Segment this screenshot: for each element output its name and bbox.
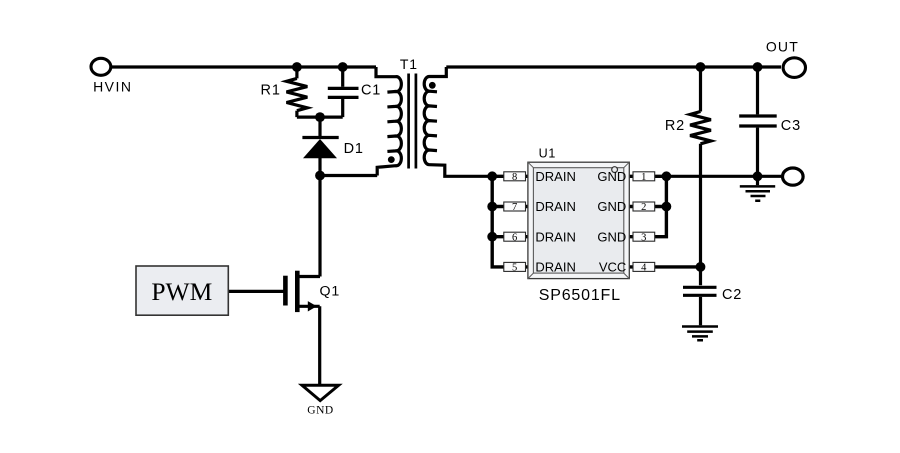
- wire drain tap Q1: [297, 275, 320, 278]
- svg-text:5: 5: [512, 263, 517, 274]
- wire pin6 stub: [492, 235, 528, 238]
- IC U1 body: [528, 162, 629, 278]
- wire output ground line: [666, 175, 781, 178]
- node pin6: [487, 232, 497, 242]
- svg-text:GND: GND: [597, 229, 626, 244]
- PWM block: [136, 266, 228, 315]
- chassis ground under C3: [740, 186, 775, 200]
- transistor Q1 source arrow: [308, 301, 317, 311]
- wire C3 bottom: [756, 128, 759, 177]
- wire R1 bottom: [295, 111, 298, 117]
- wire source vertical: [318, 306, 321, 385]
- svg-text:R1: R1: [261, 83, 281, 99]
- wire pin7 stub: [492, 205, 528, 208]
- pin 1 box: [633, 172, 655, 181]
- svg-text:8: 8: [512, 172, 517, 183]
- svg-text:2: 2: [641, 202, 646, 213]
- wire pin1 stub: [629, 175, 666, 178]
- svg-text:7: 7: [512, 202, 517, 213]
- svg-text:T1: T1: [400, 56, 418, 72]
- node pin1: [662, 171, 672, 181]
- node pin7: [487, 202, 497, 212]
- svg-text:1: 1: [641, 172, 646, 183]
- svg-text:C2: C2: [722, 287, 742, 303]
- svg-text:R2: R2: [665, 118, 685, 134]
- node R1-C1 bottom: [315, 112, 325, 122]
- svg-text:C3: C3: [781, 118, 801, 134]
- svg-text:4: 4: [641, 263, 647, 274]
- junction dots: [292, 62, 762, 272]
- capacitor C1: [328, 88, 359, 97]
- phase dot secondary: [429, 82, 436, 89]
- pin boxes left: [504, 172, 655, 272]
- wire to D1: [318, 117, 321, 136]
- wire source tap Q1: [297, 305, 319, 308]
- pin 7 box: [504, 202, 526, 211]
- svg-text:6: 6: [512, 232, 517, 243]
- transformer core lines: [409, 74, 416, 169]
- svg-text:D1: D1: [344, 141, 364, 157]
- wire drain vertical: [318, 176, 321, 277]
- wire node to transformer primary bottom: [320, 174, 377, 177]
- wire R1 branch top: [295, 67, 298, 78]
- IC pin labels: [535, 169, 626, 275]
- wire C2 to ground: [699, 297, 702, 325]
- pin numbers: [512, 172, 647, 274]
- svg-text:HVIN: HVIN: [93, 79, 132, 95]
- svg-text:DRAIN: DRAIN: [535, 260, 575, 275]
- wire R2 bottom to pin4 node to C2: [699, 144, 702, 286]
- diode D1: [302, 138, 338, 159]
- ground symbol under Q1: [302, 385, 339, 400]
- transformer T1 secondary winding: [424, 67, 492, 176]
- pin 8 box: [504, 172, 526, 181]
- pin 4 box: [633, 262, 655, 271]
- svg-text:SP6501FL: SP6501FL: [539, 287, 621, 304]
- svg-text:DRAIN: DRAIN: [535, 229, 575, 244]
- wire C1 branch top: [341, 67, 344, 87]
- svg-text:OUT: OUT: [766, 38, 799, 54]
- node C1 top: [338, 62, 348, 72]
- wire pin2 stub: [629, 205, 666, 208]
- node VCC pin4: [696, 262, 706, 272]
- svg-text:DRAIN: DRAIN: [535, 169, 575, 184]
- wire C1 bottom: [341, 99, 344, 117]
- wire R1-C1 bottom join: [297, 115, 343, 118]
- svg-text:GND: GND: [597, 199, 626, 214]
- transformer T1 primary winding: [376, 67, 401, 176]
- pin 6 box: [504, 232, 526, 241]
- terminal OUT: [783, 58, 805, 78]
- svg-text:3: 3: [641, 232, 646, 243]
- node R1 top: [292, 62, 302, 72]
- svg-text:C1: C1: [361, 83, 381, 99]
- terminal HVIN: [91, 58, 111, 75]
- transistor Q1 channel bar: [295, 271, 300, 312]
- wire top rail left: [112, 65, 376, 68]
- transistor Q1 gate bar: [283, 276, 288, 306]
- wire gate from PWM: [228, 290, 285, 293]
- svg-text:GND: GND: [597, 169, 626, 184]
- svg-text:Q1: Q1: [320, 284, 341, 300]
- terminal output return: [783, 168, 804, 185]
- wire D1 to node: [318, 158, 321, 176]
- wire R2 branch: [699, 67, 702, 112]
- node R2 top: [696, 62, 706, 72]
- node C3 top: [753, 62, 763, 72]
- chassis ground under C2: [682, 327, 718, 341]
- node pin8: [487, 171, 497, 181]
- svg-text:U1: U1: [539, 147, 557, 161]
- wire right GND bus: [629, 176, 666, 236]
- pin 2 box: [633, 202, 655, 211]
- wire C3 ground stub: [756, 176, 759, 185]
- node C3 bottom: [753, 171, 763, 181]
- node pin2: [662, 202, 672, 212]
- svg-text:GND: GND: [307, 405, 333, 417]
- wire left DRAIN bus: [492, 176, 528, 267]
- pin 3 box: [633, 232, 655, 241]
- resistor R1: [287, 78, 308, 110]
- pin1 indicator: [612, 167, 618, 173]
- wire C3 branch top: [756, 67, 759, 114]
- node D1 anode: [315, 171, 325, 181]
- capacitor C2: [683, 287, 717, 295]
- svg-text:VCC: VCC: [599, 260, 626, 275]
- resistor R2: [690, 112, 711, 144]
- svg-text:DRAIN: DRAIN: [535, 199, 575, 214]
- svg-text:PWM: PWM: [151, 277, 212, 306]
- pin 5 box: [504, 262, 526, 271]
- phase dot primary: [388, 156, 395, 163]
- wire pin8 stub: [492, 175, 528, 178]
- capacitor C3: [739, 116, 777, 126]
- wire pin4 to VCC node: [629, 265, 700, 268]
- wire top rail right: [446, 65, 781, 68]
